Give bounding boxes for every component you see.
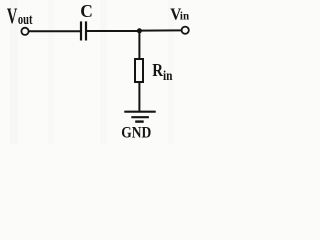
background paper xyxy=(0,0,199,144)
terminal Vout xyxy=(21,28,28,35)
svg-text:in: in xyxy=(163,69,173,84)
label Vin xyxy=(170,5,189,24)
svg-text:out: out xyxy=(18,12,33,28)
svg-text:V: V xyxy=(7,3,17,28)
terminal Vin xyxy=(182,27,189,34)
svg-text:in: in xyxy=(180,9,189,23)
capacitor C xyxy=(81,21,86,40)
label Rin xyxy=(152,60,172,84)
wire capacitor to junction xyxy=(87,30,140,32)
wire Vout terminal to capacitor xyxy=(29,30,80,32)
junction node xyxy=(137,28,142,33)
wire junction down to resistor xyxy=(138,31,140,58)
wire resistor to ground xyxy=(138,83,140,112)
svg-text:GND: GND xyxy=(121,125,151,142)
svg-text:C: C xyxy=(80,1,93,21)
wire junction to Vin terminal xyxy=(140,29,181,31)
label C xyxy=(80,1,93,21)
label Vout xyxy=(7,3,33,28)
label GND xyxy=(121,125,151,142)
ground xyxy=(124,112,155,122)
resistor Rin xyxy=(135,59,143,82)
